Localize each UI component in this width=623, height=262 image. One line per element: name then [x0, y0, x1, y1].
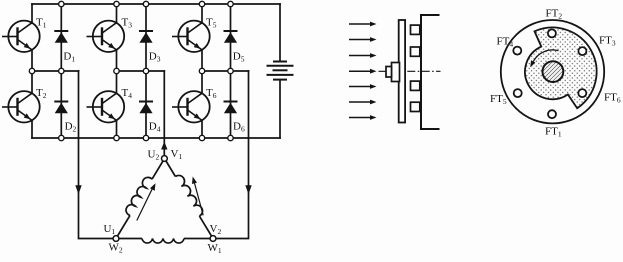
svg-text:T1: T1	[36, 16, 47, 29]
node delta apex U2/V1	[162, 156, 168, 162]
winding U phase coil (left side of delta)	[116, 159, 165, 239]
node mid rail D1	[59, 68, 64, 73]
winding W phase coil (bottom side of delta)	[116, 239, 213, 244]
svg-text:FT2: FT2	[546, 7, 563, 20]
svg-text:D5: D5	[233, 51, 245, 64]
transistor T3	[87, 21, 125, 52]
hub step large	[392, 63, 400, 82]
wire mid rail leg3	[202, 70, 249, 72]
rotation arrow	[530, 50, 558, 67]
node top bus D1	[59, 1, 64, 6]
svg-text:FT6: FT6	[604, 91, 621, 104]
svg-text:D1: D1	[63, 51, 75, 64]
sensor hole FT3	[578, 47, 586, 55]
wire T6 emitter to bottom bus	[201, 120, 203, 138]
sensor hole FT5	[514, 89, 522, 97]
wire phase V tap to delta apex	[163, 71, 165, 156]
diode D6	[224, 102, 238, 114]
photo element 3	[411, 81, 420, 90]
transistor T6	[172, 91, 210, 122]
svg-text:W2: W2	[109, 242, 123, 255]
arrow current down left tap	[75, 185, 81, 194]
transistor T4	[87, 91, 125, 122]
diode D2	[54, 102, 68, 114]
node bottom bus D6	[228, 135, 233, 140]
svg-text:U2: U2	[148, 149, 160, 162]
wire T5 emitter to mid rail	[201, 50, 203, 71]
svg-text:FT5: FT5	[490, 93, 507, 106]
node delta left U1/W2	[113, 236, 119, 242]
node bottom bus T4	[114, 135, 119, 140]
svg-text:D3: D3	[149, 51, 161, 64]
light ray arrows	[349, 22, 377, 120]
wire T2 emitter to bottom bus	[31, 120, 33, 138]
node top bus D3	[143, 1, 148, 6]
sensor bracket	[421, 15, 440, 129]
wire battery positive lead	[279, 4, 281, 61]
wire T1 emitter to mid rail	[31, 50, 33, 71]
wire T4 collector drop	[116, 71, 118, 93]
svg-text:V2: V2	[210, 223, 222, 236]
node delta right V2/W1	[210, 236, 216, 242]
diode D5	[224, 31, 238, 43]
wire top bus	[32, 3, 280, 5]
svg-text:T5: T5	[206, 16, 217, 29]
motor shaft (hatched)	[543, 61, 564, 82]
node mid rail T5	[199, 68, 204, 73]
svg-text:W1: W1	[208, 242, 222, 255]
svg-text:T4: T4	[122, 87, 133, 100]
diode D1	[54, 31, 68, 43]
arrow current down right tap	[245, 185, 251, 194]
node bottom bus D4	[143, 135, 148, 140]
sensor plate outer circle	[501, 20, 604, 123]
winding V phase coil (right side of delta)	[165, 159, 214, 239]
node top bus T3	[114, 1, 119, 6]
diode D3	[139, 31, 153, 43]
wire T1 collector drop	[31, 4, 33, 23]
wire bottom bus	[32, 137, 280, 139]
wire T6 collector drop	[201, 71, 203, 93]
centerline dash-dot axis	[379, 70, 441, 72]
svg-text:T6: T6	[206, 87, 217, 100]
transistor T2	[2, 91, 40, 122]
svg-text:FT1: FT1	[545, 126, 562, 139]
svg-text:FT3: FT3	[599, 35, 616, 48]
svg-text:FT4: FT4	[497, 36, 514, 49]
shutter disk edge view	[399, 20, 405, 123]
svg-text:T2: T2	[36, 87, 47, 100]
wire D1 branch	[60, 4, 62, 71]
wire D4 branch	[145, 71, 147, 138]
wire D2 branch	[60, 71, 62, 138]
wire phase U tap	[79, 71, 117, 239]
wire mid rail leg2	[117, 70, 165, 72]
wire battery negative lead	[279, 81, 281, 138]
shutter vane (stippled)	[525, 28, 597, 109]
wire T2 collector drop	[31, 71, 33, 93]
svg-text:D6: D6	[233, 120, 245, 133]
node mid rail D3	[143, 68, 148, 73]
sensor hole FT4	[513, 47, 521, 55]
wire mid rail leg1	[32, 70, 79, 72]
node bottom bus T6	[199, 135, 204, 140]
transistor T5	[172, 21, 210, 52]
photo element 1	[411, 25, 420, 34]
node mid rail T3	[114, 68, 119, 73]
wire phase W tap	[213, 71, 249, 239]
node top bus T5	[199, 1, 204, 6]
arrow EMF left winding	[137, 183, 156, 220]
node bottom bus D2	[59, 135, 64, 140]
svg-text:V1: V1	[171, 148, 183, 161]
sensor hole FT6	[578, 89, 586, 97]
node mid rail D5	[228, 68, 233, 73]
svg-text:D2: D2	[65, 120, 77, 133]
wire D6 branch	[230, 71, 232, 138]
wire D5 branch	[230, 4, 232, 71]
hub step small (shaft)	[386, 67, 392, 78]
battery GB	[267, 62, 294, 80]
arrow current up into apex	[161, 142, 167, 150]
wire T5 collector drop	[201, 4, 203, 23]
sensor hole FT1	[548, 110, 556, 118]
wire T3 collector drop	[116, 4, 118, 23]
photo element 4	[411, 102, 420, 111]
diode D4	[139, 102, 153, 114]
transistor T1	[2, 21, 40, 52]
arrow EMF right winding	[192, 177, 203, 216]
node top bus D5	[228, 1, 233, 6]
wire T4 emitter to bottom bus	[116, 120, 118, 138]
svg-text:T3: T3	[122, 16, 133, 29]
svg-text:D4: D4	[149, 120, 161, 133]
node mid rail T1	[29, 68, 34, 73]
wire T3 emitter to mid rail	[116, 50, 118, 71]
svg-text:U1: U1	[104, 223, 116, 236]
wire D3 branch	[145, 4, 147, 71]
photo element 2	[411, 47, 420, 56]
sensor hole FT2	[548, 29, 556, 37]
